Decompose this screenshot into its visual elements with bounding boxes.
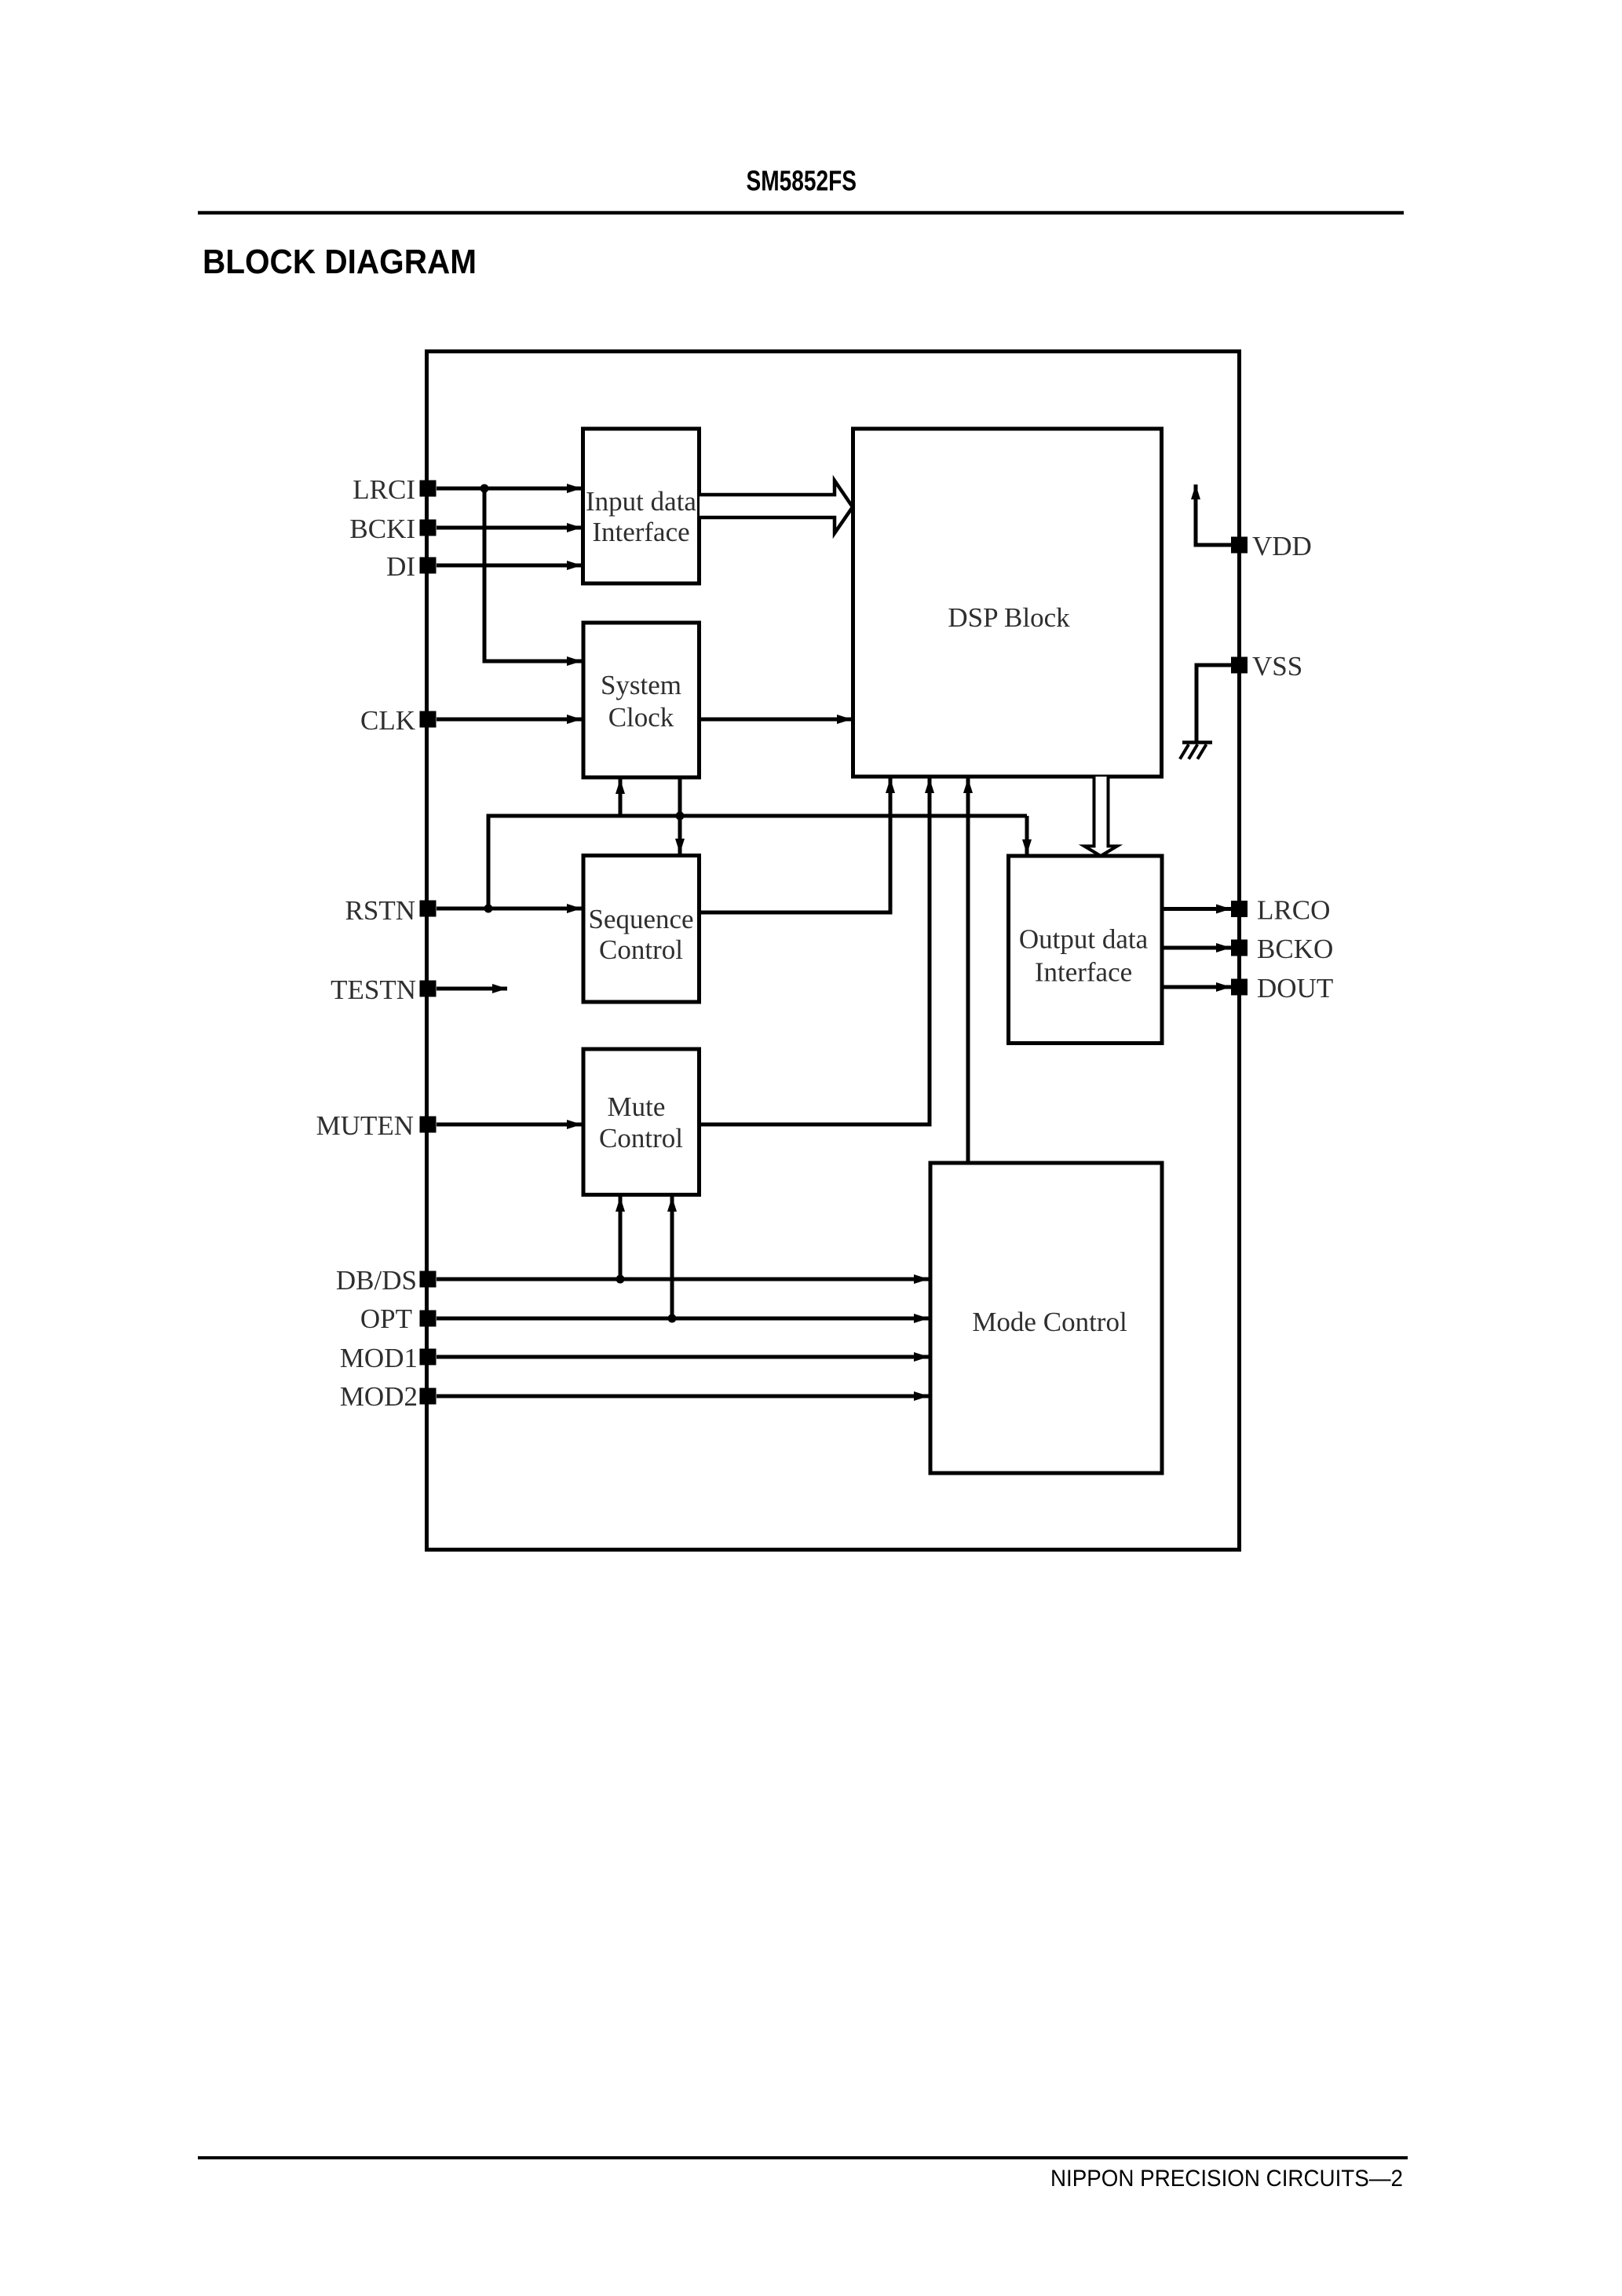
block Mode Control — [930, 1163, 1162, 1473]
bus arrow DSP Block to Output data Interface — [1084, 777, 1117, 856]
svg-text:Input data: Input data — [586, 486, 696, 517]
wire TESTN stub — [437, 987, 507, 991]
pin RSTN — [345, 895, 437, 926]
wire VSS to ground — [1196, 665, 1231, 741]
wire DI to Input data Interface — [437, 564, 582, 568]
svg-text:Interface: Interface — [1035, 957, 1132, 988]
wire RSTN to Sequence Control — [437, 907, 582, 911]
node junction below System Clock — [676, 812, 685, 821]
wire System Clock bottom to Sequence Control top — [678, 777, 682, 854]
pin DOUT — [1231, 973, 1333, 1004]
wire Mute Control to DSP Block — [700, 778, 930, 1124]
wire OPT to Mode Control — [437, 1317, 929, 1321]
wire Output data Interface to BCKO — [1162, 946, 1231, 950]
pin BCKI — [349, 514, 436, 544]
node junction on DB/DS wire — [616, 1275, 625, 1284]
svg-text:Control: Control — [599, 1123, 683, 1153]
pin TESTN — [331, 974, 436, 1005]
svg-text:LRCI: LRCI — [353, 474, 415, 505]
block Mute Control — [583, 1049, 700, 1195]
svg-text:OPT: OPT — [360, 1303, 412, 1334]
wire Mode Control to DSP Block — [966, 778, 970, 1163]
svg-text:System: System — [601, 670, 681, 700]
block System Clock — [583, 623, 700, 777]
svg-text:Control: Control — [599, 934, 683, 965]
svg-text:Sequence: Sequence — [588, 904, 693, 934]
svg-text:Output data: Output data — [1019, 924, 1149, 955]
bus arrow Input data Interface to DSP Block — [700, 481, 853, 533]
svg-text:BCKO: BCKO — [1257, 934, 1333, 964]
wire CLK to System Clock — [437, 718, 582, 722]
pin LRCO — [1231, 895, 1330, 926]
wire MOD2 to Mode Control — [437, 1395, 929, 1398]
wire OPT branch up into Mute Control bottom — [670, 1197, 674, 1318]
wire LRCI to Input data Interface — [437, 487, 582, 491]
wire BCKI to Input data Interface — [437, 526, 582, 530]
pin VDD — [1231, 531, 1312, 561]
pin BCKO — [1231, 934, 1333, 964]
wire System Clock to DSP Block — [700, 718, 853, 722]
svg-text:MUTEN: MUTEN — [316, 1110, 414, 1141]
node junction on OPT wire — [668, 1314, 677, 1323]
footer rule — [198, 2156, 1408, 2159]
wire Output data Interface to LRCO — [1162, 907, 1231, 911]
wire reset bus horizontal — [487, 814, 1028, 818]
svg-text:NIPPON PRECISION CIRCUITS—2: NIPPON PRECISION CIRCUITS—2 — [1050, 2166, 1403, 2192]
wire RSTN branch up — [487, 816, 491, 909]
wire LRCI branch to System Clock — [484, 488, 582, 661]
node junction on RSTN wire — [484, 905, 493, 913]
pin MUTEN — [316, 1110, 437, 1141]
wire Output data Interface to DOUT — [1162, 985, 1231, 989]
header rule — [198, 211, 1404, 215]
svg-text:MOD1: MOD1 — [340, 1343, 418, 1373]
svg-text:MOD2: MOD2 — [340, 1381, 418, 1412]
svg-text:VDD: VDD — [1252, 531, 1312, 561]
node junction on LRCI wire — [480, 484, 489, 493]
pin DI — [386, 551, 436, 582]
block DSP Block — [853, 429, 1162, 777]
block Input data Interface — [583, 429, 700, 583]
svg-text:Clock: Clock — [608, 702, 674, 733]
wire VDD supply with up arrow — [1196, 484, 1231, 545]
svg-text:DOUT: DOUT — [1257, 973, 1333, 1004]
svg-text:DSP Block: DSP Block — [948, 602, 1070, 633]
wire DB/DS to Mode Control — [437, 1278, 929, 1281]
ground symbol — [1180, 743, 1212, 759]
block Output data Interface — [1009, 856, 1163, 1044]
svg-text:SM5852FS: SM5852FS — [747, 165, 857, 197]
pin MOD2 — [340, 1381, 437, 1412]
outer chip boundary — [427, 352, 1240, 1550]
wire MUTEN to Mute Control — [437, 1123, 582, 1127]
pin DB/DS — [336, 1265, 437, 1296]
wire bus branch up into System Clock bottom — [619, 779, 623, 816]
svg-text:VSS: VSS — [1252, 651, 1302, 682]
svg-text:DI: DI — [386, 551, 415, 582]
pin MOD1 — [340, 1343, 437, 1373]
svg-text:CLK: CLK — [360, 705, 415, 736]
svg-text:TESTN: TESTN — [331, 974, 416, 1005]
wire MOD1 to Mode Control — [437, 1355, 929, 1359]
wire Sequence Control to DSP Block — [700, 778, 891, 912]
svg-text:Interface: Interface — [592, 517, 689, 547]
block Sequence Control — [583, 856, 700, 1003]
wire DB/DS branch up into Mute Control bottom — [619, 1197, 623, 1279]
svg-text:LRCO: LRCO — [1257, 895, 1330, 926]
svg-text:RSTN: RSTN — [345, 895, 415, 926]
pin CLK — [360, 705, 437, 736]
svg-text:Mute: Mute — [608, 1091, 666, 1122]
pin VSS — [1231, 651, 1302, 682]
wire bus down into Output data Interface top — [1025, 816, 1029, 854]
svg-text:Mode Control: Mode Control — [972, 1307, 1127, 1337]
pin OPT — [360, 1303, 437, 1334]
pin LRCI — [353, 474, 436, 505]
svg-text:DB/DS: DB/DS — [336, 1265, 417, 1296]
svg-text:BLOCK DIAGRAM: BLOCK DIAGRAM — [203, 243, 477, 281]
svg-text:BCKI: BCKI — [349, 514, 415, 544]
